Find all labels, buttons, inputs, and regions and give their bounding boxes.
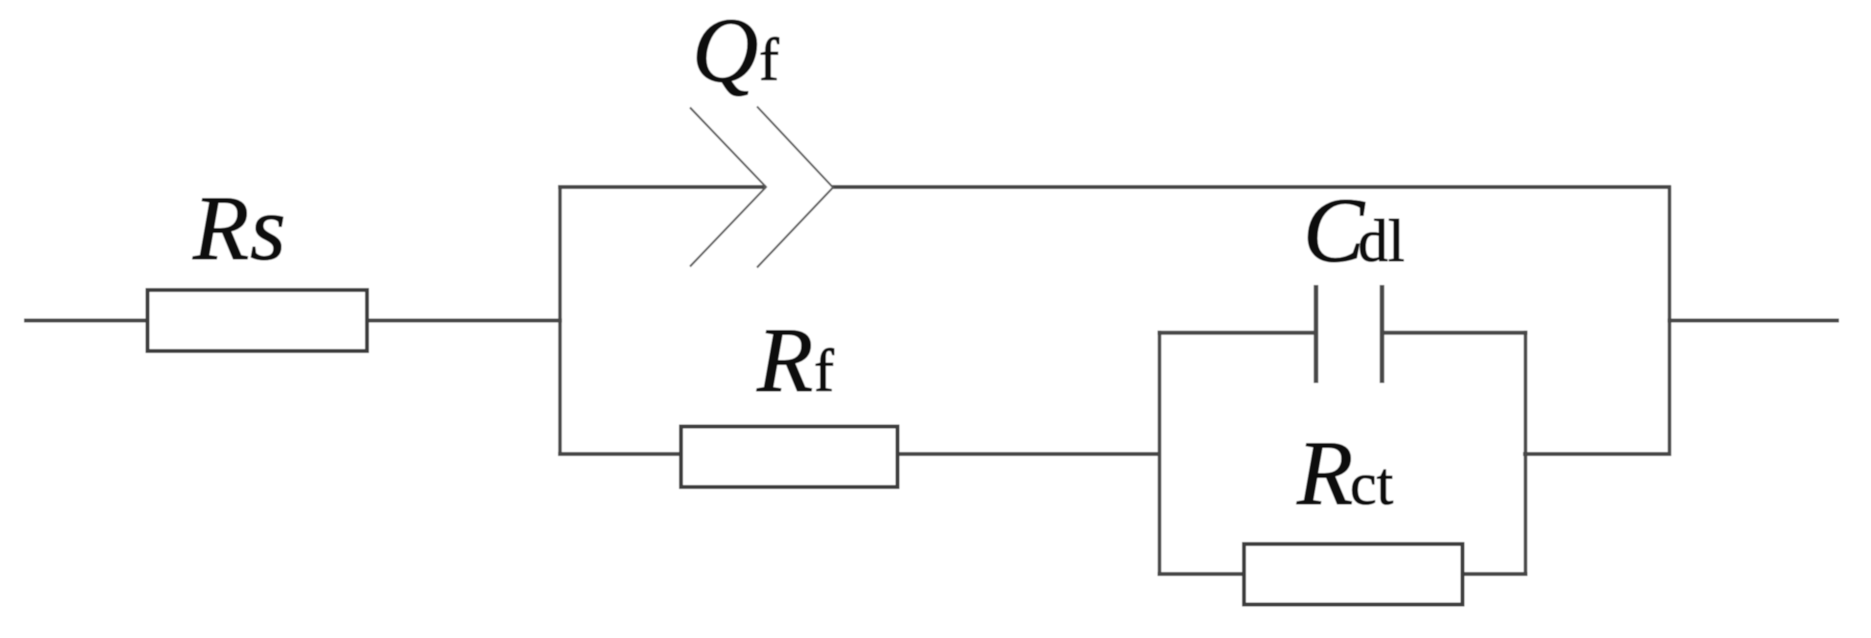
svg-text:C: C [1303, 179, 1366, 281]
svg-text:dl: dl [1358, 208, 1405, 274]
svg-text:Q: Q [692, 0, 758, 101]
svg-text:s: s [250, 177, 286, 279]
svg-text:R: R [1296, 422, 1353, 524]
svg-text:ct: ct [1350, 451, 1394, 517]
svg-text:f: f [814, 338, 834, 404]
svg-text:R: R [756, 309, 813, 411]
svg-text:f: f [759, 27, 779, 93]
svg-text:R: R [192, 177, 249, 279]
